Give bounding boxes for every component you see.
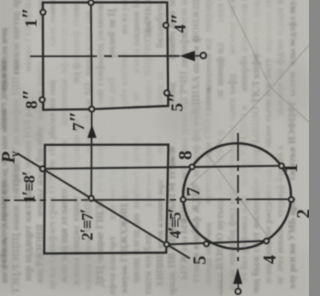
wire: projection line 7 (vertical): [90, 112, 92, 199]
node 4'': [163, 23, 168, 28]
node 4'=5': [164, 242, 169, 247]
wire: chord 4'5' to 5 to 4: [167, 241, 267, 245]
node bottom-mid: [89, 107, 94, 112]
wire: chord 8-1: [43, 166, 282, 169]
wire: [228, 0, 271, 88]
bleed-through figure lines (reverse page drawing): [189, 0, 309, 296]
wire: vertical mid line of top square: [90, 3, 93, 110]
node 8'': [40, 97, 45, 102]
wire: [206, 88, 271, 157]
node arrow circle right: [201, 53, 207, 59]
node 8: [190, 165, 195, 170]
wire: [221, 268, 222, 296]
node 2: [289, 197, 294, 202]
wire: [207, 154, 268, 237]
node: front-view square outline: [43, 2, 168, 110]
node: horizontal-view square outline: [44, 145, 168, 254]
node 5'': [164, 90, 169, 95]
wire: [271, 45, 309, 88]
wire: horizontal axis through bottom square and circle (dash-dot): [4, 199, 295, 200]
arrow: view direction up (7''): [87, 125, 96, 138]
clean paper strips: [50, 104, 278, 195]
wire: stub behind bottom arrow: [237, 284, 239, 289]
node 1: [279, 164, 284, 169]
node 7: [181, 197, 186, 202]
node 5: [204, 242, 209, 247]
node top-mid: [89, 0, 94, 5]
wire: [271, 88, 309, 122]
wire: stub behind left arrow: [195, 55, 201, 57]
node 1'': [41, 10, 46, 15]
node 1'=8': [40, 166, 45, 171]
node 2'=7': [89, 196, 94, 201]
wire: trace line Pv (diagonal): [17, 153, 190, 258]
arrow: view direction left (top right): [180, 51, 195, 62]
wire: vertical axis of circle (dash-dot): [237, 133, 239, 261]
wire: horizontal axis of top square (dash-dot): [30, 55, 180, 57]
node arrow circle bottom: [236, 289, 241, 294]
wire: [189, 149, 232, 186]
node: big circle (profile view): [183, 143, 291, 249]
arrow: view direction up (bottom): [233, 268, 242, 284]
node 4: [264, 239, 269, 244]
